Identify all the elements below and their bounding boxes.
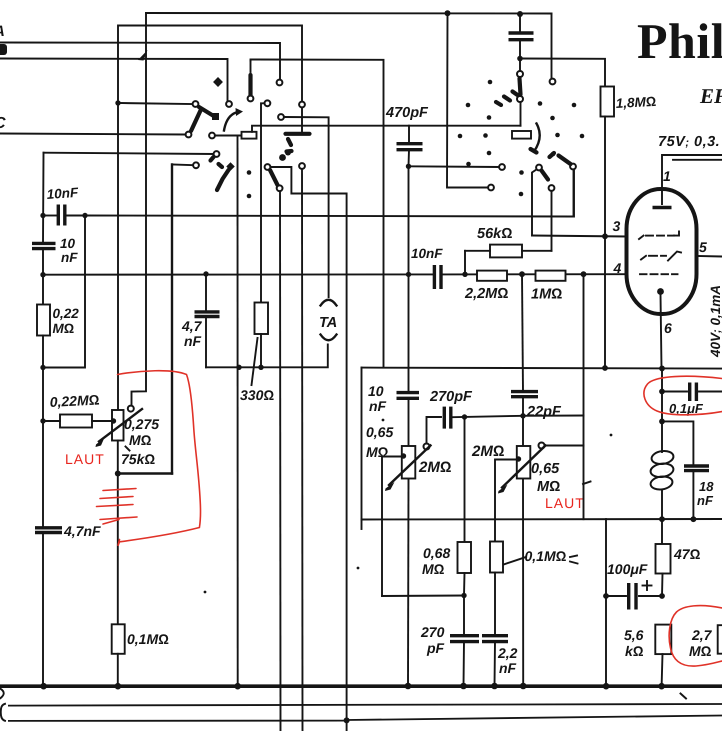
wire pot2 wiper to x=583.5 bbox=[545, 445, 584, 447]
wire 22pF junction to x=583.5 bbox=[523, 415, 584, 417]
svg-text:LAUT: LAUT bbox=[545, 495, 585, 511]
svg-text:0,1MΩ: 0,1MΩ bbox=[525, 548, 567, 564]
svg-text:4,7nF: 4,7nF bbox=[63, 523, 101, 539]
capacitor 270pF vertical plates bbox=[444, 407, 451, 429]
svg-text:5: 5 bbox=[699, 239, 707, 255]
wire long AVC rail y=274.5 across schematic bbox=[43, 273, 627, 276]
inductor L1 loops bbox=[650, 450, 675, 491]
wire 470pF bottom lead and x=408.5 long drop bbox=[408, 150, 411, 393]
label 4,7nF bbox=[63, 523, 101, 539]
switch contact circle (212,135.5) + wire to rotor box bbox=[209, 133, 241, 139]
wire long rail y=519.5 bbox=[362, 519, 722, 529]
wire rotor feed: y=125.7 rail from box to right switch bbox=[252, 126, 521, 132]
switch contact circle (279.5,82.5) bbox=[277, 80, 283, 86]
TA pickup connector symbol bbox=[319, 300, 337, 341]
wire pin5 to right edge bbox=[697, 255, 722, 258]
switch lever dashes near (220,165) bbox=[219, 164, 223, 167]
junction dot (206,274) bbox=[203, 271, 208, 276]
svg-text:75kΩ: 75kΩ bbox=[121, 451, 155, 467]
label 270 pF lower bbox=[420, 624, 445, 656]
wire pot2 left terminal to x=495 drop bbox=[495, 460, 519, 542]
junction dot (693.4,519.2) bbox=[691, 516, 697, 522]
svg-text:0,22: 0,22 bbox=[53, 306, 80, 321]
svg-text:10: 10 bbox=[368, 383, 384, 399]
junction dot (346.6,720.4) bbox=[344, 717, 350, 723]
svg-text:56kΩ: 56kΩ bbox=[477, 226, 512, 242]
label 40V 0,1mA rotated bbox=[708, 285, 722, 358]
stray dot specks bbox=[204, 419, 613, 594]
svg-text:2,2MΩ: 2,2MΩ bbox=[464, 286, 508, 302]
svg-text:2,2: 2,2 bbox=[497, 645, 518, 661]
wire 5,6k bottom to bus bbox=[661, 654, 664, 686]
resistor 0,1M vertical (AF) bbox=[490, 542, 503, 573]
switch rotor arrow arc left bbox=[224, 108, 243, 131]
switch contact circle (216.5,154) with stub lever bbox=[211, 151, 220, 160]
capacitor 270pF (lower) plates bbox=[450, 636, 479, 642]
label 470pF bbox=[385, 105, 429, 121]
wire x=606 from y=519 rail to bus bbox=[605, 519, 607, 686]
svg-text:18: 18 bbox=[699, 479, 714, 494]
svg-text:MΩ: MΩ bbox=[366, 444, 389, 460]
svg-text:6: 6 bbox=[664, 320, 672, 336]
wire 270pF right to 22pF junction bbox=[453, 416, 523, 417]
resistor 47 ohm vertical bbox=[656, 544, 671, 574]
svg-text:MΩ: MΩ bbox=[129, 432, 152, 448]
resistor 0.22M (vertical, left) bbox=[37, 305, 50, 336]
label 75V 0,3 bbox=[658, 134, 720, 150]
label 2MOhm (pot1 value) bbox=[418, 459, 451, 476]
wire 0.1M/2.2nF chain bbox=[494, 573, 497, 687]
red scribble strokes bbox=[97, 489, 138, 525]
capacitor (top, unlabeled) plates bbox=[509, 14, 534, 59]
potentiometer wiper circle bbox=[128, 406, 134, 412]
wire x=117.8 to bus bbox=[117, 654, 119, 686]
wire x=532 from circle539 to pin3 rail bbox=[532, 170, 537, 236]
svg-text:kΩ: kΩ bbox=[625, 643, 644, 659]
potentiometer P1 body 2M bbox=[402, 446, 416, 479]
svg-text:pF: pF bbox=[426, 640, 445, 656]
capacitor 22pF plates bbox=[511, 392, 538, 397]
terminal arc at left edge of bus bbox=[0, 689, 4, 699]
svg-text:100μF: 100μF bbox=[607, 561, 648, 577]
svg-text:nF: nF bbox=[369, 398, 387, 414]
wire pot1 left terminal to x=382 drop bbox=[382, 457, 404, 597]
wire x=662 down through coil taps bbox=[661, 368, 663, 544]
wire x=346.6 stub below dot bbox=[346, 720, 348, 731]
svg-text:0,68: 0,68 bbox=[423, 545, 450, 561]
junction dot (583.5,274.2) bbox=[581, 271, 587, 277]
switch S1a contact circle (188.5,134.5) bbox=[186, 132, 192, 138]
node C input terminal label bbox=[0, 115, 6, 132]
switch S2 rotor contact circle (520,99) bbox=[517, 96, 523, 102]
wire pin3 rail y=236 bbox=[532, 236, 627, 237]
svg-text:40V; 0,1mA: 40V; 0,1mA bbox=[708, 285, 722, 358]
svg-text:270: 270 bbox=[420, 624, 445, 640]
red text LAUT left bbox=[65, 451, 105, 467]
wire antenna B horizontal y=58.5 bbox=[0, 59, 228, 102]
label 0,1MOhm bbox=[127, 631, 169, 647]
junction dot (605,368) bbox=[602, 365, 608, 371]
label 10 nF AF bbox=[368, 383, 387, 414]
svg-text:LAUT: LAUT bbox=[65, 451, 105, 467]
junction dots on top rail bbox=[445, 10, 524, 17]
potentiometer P2 wiper circle bbox=[539, 443, 545, 449]
junction dot 10nF right x85 bbox=[82, 213, 87, 218]
tube EF envelope bbox=[627, 189, 697, 314]
svg-text:3: 3 bbox=[613, 218, 621, 234]
label 1,8MOhm bbox=[615, 94, 656, 111]
switch S2 rotor dashes bbox=[496, 92, 518, 106]
tube grid 1 dashed electrode on AVC rail bbox=[640, 273, 678, 275]
switch contact circle (573,166.5) + lever bbox=[550, 153, 576, 169]
label 330 ohm with pointer bbox=[240, 338, 274, 403]
wire AF box left edge x=361.5 bbox=[361, 368, 363, 520]
svg-text:nF: nF bbox=[61, 250, 78, 265]
svg-text:1,8MΩ: 1,8MΩ bbox=[615, 94, 656, 111]
wire 56k left lead down to AVC rail bbox=[464, 251, 466, 274]
wire y=59.5 rotor to x=383.5 drop bbox=[251, 60, 384, 368]
switch position diamond dot (230.5,166.5) bbox=[226, 162, 234, 170]
junction dots on y367.3 bbox=[236, 365, 263, 370]
svg-text:MΩ: MΩ bbox=[422, 561, 445, 577]
bus line 2 bbox=[8, 704, 722, 706]
svg-text:0,275: 0,275 bbox=[124, 416, 159, 432]
switch contact circle (267.4,103.3) + corner to 330 ohm feed bbox=[261, 100, 270, 302]
wire vertical x=146 from top rail to volume pot wiper bbox=[132, 13, 147, 406]
svg-text:Phili: Phili bbox=[637, 13, 722, 69]
label 56kOhm bbox=[477, 226, 512, 242]
wire coil top tap to 18nF branch bbox=[664, 421, 693, 465]
wire pin1 top to right edge bbox=[662, 155, 722, 204]
junction dot x43 y274.7 bbox=[40, 272, 45, 277]
switch S1a lever 2 bbox=[191, 111, 201, 132]
label 270pF bbox=[429, 389, 473, 405]
wire y=103.5 from dot to switch contact bbox=[118, 103, 193, 104]
potentiometer P2 body 0,65M bbox=[517, 446, 531, 479]
svg-text:MΩ: MΩ bbox=[537, 479, 560, 495]
ground bus junction dots bbox=[40, 683, 665, 690]
junction dot (408.5,274.4) bbox=[406, 272, 411, 277]
wire top rail corner x=551.5 down to switch circle bbox=[551, 14, 553, 79]
wire x=447 drop from top rail to contact bbox=[447, 13, 488, 187]
capacitor 4,7nF (bottom left) plates on x=43 bbox=[35, 528, 62, 533]
junction dot pot1 left terminal bbox=[401, 453, 406, 458]
wire top rail y=13 bbox=[146, 12, 552, 15]
wire x=573.5 circle down to y=216.5 rail bbox=[573, 170, 575, 217]
label 10nF bbox=[46, 185, 79, 202]
switch contact circle (267.5,167) + path to x=346.6 drop bbox=[265, 164, 347, 720]
label 0,275 MOhm bbox=[124, 416, 159, 448]
junction dot x43 y421 bbox=[40, 418, 45, 423]
junction dot (606,596) bbox=[603, 593, 609, 599]
svg-text:EF: EF bbox=[699, 84, 722, 108]
label 0,22MOhm horizontal resistor bbox=[49, 391, 100, 410]
label 0,68 MOhm bbox=[422, 545, 450, 577]
junction dot (662,368.4) output line bbox=[659, 366, 665, 372]
capacitor 0,1uF plates (vertical) bbox=[664, 383, 722, 402]
wire x=302 rotor stem upper bbox=[301, 108, 303, 132]
junction dot left 10nF x43 bbox=[40, 213, 45, 218]
label 2,2 nF bbox=[497, 645, 518, 676]
red circle annotation around 0,1uF bbox=[644, 376, 722, 415]
svg-text:330Ω: 330Ω bbox=[240, 387, 274, 403]
switch contact circle (502,167) bbox=[499, 164, 505, 170]
svg-text:nF: nF bbox=[184, 333, 202, 349]
label 0,65 MOhm (pot1 left label) bbox=[366, 424, 393, 460]
wire wiper to 270pF rail bbox=[427, 417, 442, 444]
label 47 ohm bbox=[673, 546, 701, 562]
label 10 nF (series cap) bbox=[60, 236, 78, 265]
resistor 0,68M vertical bbox=[458, 542, 472, 573]
tube grid 3 dashed electrode bbox=[639, 232, 679, 240]
junction dot pot2 left terminal bbox=[516, 456, 521, 461]
small tick below bus right bbox=[681, 694, 687, 699]
wire y=152.7 from left column to switch contact bbox=[44, 153, 214, 154]
switch rotor stem blobs bbox=[279, 150, 291, 161]
ground bus main thick line bbox=[0, 684, 722, 688]
resistor 0.22M (horizontal) bbox=[43, 415, 112, 428]
wire left column x=43 below resistor bbox=[42, 336, 44, 528]
resistor 5,6k vertical bbox=[655, 625, 671, 655]
label 4,7 nF (x=206 cap) bbox=[181, 318, 203, 349]
bus line 3 with junction dot bbox=[8, 716, 722, 721]
switch rotor lever top (250.5,60)-(250.5,98) bbox=[250, 61, 252, 96]
potentiometer P1 wiper circle bbox=[424, 444, 430, 450]
svg-text:4: 4 bbox=[613, 260, 622, 276]
skew jump mark on wire B bbox=[138, 50, 148, 61]
svg-text:TA: TA bbox=[319, 315, 337, 331]
red text LAUT right bbox=[545, 495, 585, 511]
switch S1a contact circle (195.5,104) bbox=[193, 101, 199, 107]
label 100uF bbox=[607, 561, 648, 577]
switch position dot diamond (218,82) bbox=[213, 77, 223, 87]
wire long rail y=368 from box to right edge bbox=[362, 368, 722, 369]
switch contact circle (551.5,188) bbox=[549, 185, 555, 191]
switch contact circle (539,167.5) + lever bbox=[536, 165, 548, 180]
label 0,65 MOhm (pot2 value) bbox=[531, 461, 560, 495]
wire x=520.5 down from circle99 to y=125.7 rail corner bbox=[520, 102, 522, 126]
terminal bracket at left edge lines 2-3 bbox=[1, 704, 5, 721]
svg-text:0,22MΩ: 0,22MΩ bbox=[49, 391, 100, 410]
switch position dots x249 bbox=[247, 170, 252, 198]
capacitor 18nF plates bbox=[684, 466, 709, 471]
svg-text:22pF: 22pF bbox=[526, 404, 562, 420]
resistor 2,7M partial at right edge bbox=[718, 625, 722, 654]
wire x=583.5 AVC drop from dot274 to y=519.5 bbox=[583, 274, 585, 519]
tube grid 2 dashed electrode to pin5 bbox=[641, 252, 681, 261]
resistor 0,1M (vertical bottom left) bbox=[112, 624, 125, 654]
switch rotor lever contact circle (250.5,98.5) bbox=[248, 96, 254, 102]
wire rail y=25.5 with vertical x=118 bbox=[118, 26, 302, 411]
wire x=551.5 from circle188 down to 56k bbox=[551, 191, 553, 251]
wire 470pF top lead to y=125.7 rail bbox=[408, 126, 410, 144]
svg-text:1MΩ: 1MΩ bbox=[531, 287, 562, 303]
label 18 nF bbox=[697, 479, 714, 508]
switch lever boomerang (228,170)-(217,190) bbox=[217, 170, 229, 190]
svg-text:2MΩ: 2MΩ bbox=[418, 459, 451, 476]
wire long rail y=215.5 to right switch bbox=[85, 169, 574, 217]
wire left column x=43 mid segment bbox=[42, 249, 44, 305]
junction dot (523,415.8) bbox=[520, 413, 525, 418]
switch rotor contact box left bbox=[242, 132, 257, 139]
capacitor 4,7nF (x=206) plates bbox=[195, 312, 220, 317]
wire x=206 cap leads bbox=[205, 274, 207, 367]
junction dot (522,274.2) bbox=[519, 271, 525, 277]
red annotation loop around volume pot bbox=[118, 371, 201, 546]
wire left column x=43 top segment bbox=[42, 153, 45, 244]
svg-text:2,7: 2,7 bbox=[691, 627, 713, 643]
svg-text:0,65: 0,65 bbox=[531, 461, 560, 477]
switch S2 rotor arc bbox=[531, 124, 540, 153]
tube type label EF (cut) bbox=[699, 84, 722, 108]
label 2,2MOhm bbox=[464, 286, 508, 302]
svg-text:MΩ: MΩ bbox=[53, 321, 75, 336]
pointer tick to 75k label bbox=[126, 447, 130, 451]
wire x=237.5 from y135.5 down to bus bbox=[237, 136, 239, 687]
svg-text:10nF: 10nF bbox=[46, 185, 79, 202]
wire y=367.3 from x206 to TA bbox=[206, 345, 328, 368]
junction dot (662,519.2) bbox=[659, 516, 665, 522]
label 22pF bbox=[526, 404, 562, 420]
switch contact circle (281,117) + wire to TA drop bbox=[278, 114, 329, 297]
capacitor 10nF (AF, x=408.5) plates bbox=[397, 393, 420, 399]
svg-text:nF: nF bbox=[697, 493, 714, 508]
svg-text:0,65: 0,65 bbox=[366, 424, 393, 440]
skew dash near pot2 bbox=[583, 482, 591, 485]
junction dot (662,421.4) bbox=[659, 419, 665, 425]
potentiometer 0.275M LAUT body bbox=[112, 410, 124, 441]
junction dot (520,58.5) bbox=[517, 56, 523, 62]
svg-text:75V; 0,3.: 75V; 0,3. bbox=[658, 134, 720, 150]
label 0,1uF bbox=[669, 401, 704, 416]
tube pin labels 1 3 4 5 6 bbox=[613, 168, 708, 336]
svg-text:MΩ: MΩ bbox=[689, 643, 712, 659]
Philips logo text bbox=[637, 13, 722, 69]
resistor 330 ohm vertical bbox=[255, 303, 269, 335]
switch contact circle (302,104.5) bbox=[299, 102, 305, 108]
junction dot (408.5,166.3) bbox=[406, 164, 411, 169]
node B input terminal glyph bbox=[0, 44, 7, 55]
capacitor 2,2nF plates bbox=[482, 636, 508, 642]
tube cathode dot and pin6 wire bbox=[657, 288, 664, 368]
wire antenna A horizontal y=42.5 bbox=[0, 43, 280, 81]
svg-text:10: 10 bbox=[60, 236, 76, 251]
svg-text:4,7: 4,7 bbox=[181, 318, 203, 334]
junction dot x43 y367.5 bbox=[40, 365, 45, 370]
svg-text:470pF: 470pF bbox=[385, 105, 429, 121]
switch position dots (right wafer) bbox=[458, 80, 585, 197]
wire pot lower lead x=117.8 bbox=[117, 441, 119, 625]
resistor 2,2M horizontal bbox=[477, 271, 507, 281]
wire y=58.5 to 1.8M resistor bbox=[520, 59, 605, 87]
junction dot (662,391.5) bbox=[659, 389, 665, 395]
wire 270pF lower leads bbox=[463, 596, 466, 687]
junction dot pot bottom y473.5 bbox=[115, 471, 121, 477]
svg-text:2MΩ: 2MΩ bbox=[471, 443, 504, 460]
label 0,22 MOhm vertical resistor bbox=[53, 306, 80, 336]
wire 0.68M bottom to junction bbox=[463, 573, 466, 596]
switch S2 rotor contact circle (520,74) bbox=[517, 59, 523, 78]
label 75kOhm bbox=[121, 451, 155, 467]
svg-text:A: A bbox=[0, 23, 5, 40]
resistor 56k horizontal bbox=[465, 245, 552, 258]
red circle annotation around 2,7M bbox=[669, 606, 722, 667]
svg-text:C: C bbox=[0, 115, 6, 132]
switch S1a lever bbox=[199, 107, 219, 120]
label 1MOhm bbox=[531, 287, 562, 303]
potentiometer P1 arrow bbox=[385, 446, 431, 492]
skew dashes near 100uF top left bbox=[570, 556, 578, 564]
switch contact circle (229,104) bbox=[226, 101, 232, 107]
svg-text:1: 1 bbox=[663, 168, 671, 184]
wire 18nF bottom lead bbox=[692, 471, 694, 520]
switch contact circle (302,166) + wire x=302 down to bottom bbox=[299, 163, 305, 731]
wire x=464.5 down to 0.68M bbox=[464, 417, 466, 542]
capacitor 10nF (left series) horizontal plates on x=43 bbox=[32, 243, 56, 248]
wire left column x=43 bottom bbox=[42, 533, 44, 687]
junction dot (464,595.5) bbox=[461, 593, 466, 598]
label 10nF mid bbox=[411, 246, 443, 261]
resistor 1,8M vertical bbox=[601, 87, 615, 117]
wire x=85 drop to x43 junction bbox=[43, 216, 85, 368]
svg-text:270pF: 270pF bbox=[429, 389, 473, 405]
switch contact circle (196,165.3) bbox=[172, 162, 199, 168]
tube top cap electrode bbox=[653, 206, 672, 209]
wire 47ohm bottom to 100uF node bbox=[661, 574, 664, 597]
junction dot (662,596) bbox=[659, 593, 665, 599]
switch rotor T-bar bbox=[286, 134, 310, 145]
switch lever (269.5,169)-(278,186) bbox=[270, 170, 278, 185]
wire C horizontal y=133.5 to switch contact bbox=[0, 134, 186, 135]
potentiometer arrow bbox=[96, 409, 143, 447]
wire x=382 corner to 0.68M junction bbox=[382, 595, 464, 598]
capacitor 100uF plates (vertical) with + bbox=[608, 581, 660, 610]
junction dot (605,236.3) bbox=[602, 233, 608, 239]
node A input terminal label bbox=[0, 23, 5, 40]
label 5,6 kOhm bbox=[624, 627, 644, 659]
label 2,7 MOhm bbox=[689, 627, 713, 659]
switch S2 rotor lever vertical bbox=[520, 79, 521, 95]
svg-text:0,1MΩ: 0,1MΩ bbox=[127, 631, 169, 647]
junction dot x118 y103 bbox=[115, 100, 120, 105]
svg-text:47Ω: 47Ω bbox=[673, 546, 701, 562]
junction dot (465,274.3) bbox=[462, 272, 467, 277]
junction dot pot left terminal bbox=[111, 418, 116, 423]
potentiometer P2 arrow bbox=[498, 446, 546, 494]
wire x=172 from switch contact down bbox=[171, 165, 173, 474]
label 0,1MOhm AF with pointer bbox=[504, 548, 567, 565]
wire x=408.5 through pot1 to bus bbox=[407, 398, 410, 686]
label 2MOhm (pot2 left label) bbox=[471, 443, 504, 460]
wire 75k bracket to x=172 bbox=[118, 472, 172, 474]
capacitor 10nF (mid) vertical plates on AVC rail bbox=[434, 265, 441, 289]
switch contact circle (552.5,81.5) bbox=[550, 79, 556, 85]
capacitor 470pF plates bbox=[397, 144, 423, 150]
resistor 1M horizontal bbox=[536, 271, 566, 281]
switch S2 rotor contact box bbox=[512, 131, 531, 139]
capacitor 10nF (left coupling) vertical plates bbox=[45, 205, 85, 226]
wire x=523 from AVC dot through 22pF and pot2 to bus bbox=[522, 274, 523, 686]
wire 330 ohm bottom lead bbox=[260, 334, 262, 367]
switch contact circle (279.6,188.3) + wire x=280 to bottom bbox=[277, 185, 283, 731]
wire y=166.8 to switch contact bbox=[409, 165, 500, 168]
svg-text:5,6: 5,6 bbox=[624, 627, 644, 643]
switch contact circle (491,187.5) bbox=[488, 185, 494, 191]
svg-text:10nF: 10nF bbox=[411, 246, 443, 261]
svg-text:nF: nF bbox=[499, 660, 517, 676]
junction dot (464.5,417) bbox=[462, 414, 467, 419]
wire x=605 from 1.8M down to y=368 rail bbox=[604, 117, 606, 369]
